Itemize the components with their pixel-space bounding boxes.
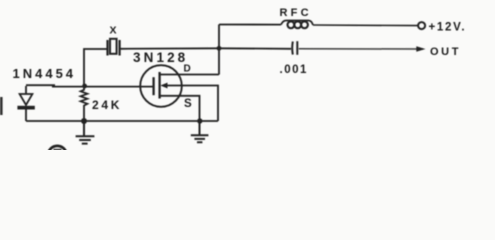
crystal X (106, 40, 108, 56)
wire top rail left of RFC (219, 24, 281, 26)
svg-text:.001: .001 (280, 64, 308, 76)
junction node resistor bottom (81, 118, 87, 124)
mosfet Q1 3N128 (140, 65, 182, 107)
svg-text:S: S (184, 98, 192, 110)
wire crystal to drain node (120, 47, 220, 50)
scan edge mark (0, 97, 3, 115)
junction node drain output (217, 46, 222, 51)
wire crystal left branch (84, 49, 108, 86)
wire RFC to +12V terminal (313, 24, 418, 27)
wire output line (219, 47, 291, 50)
junction node source ground (197, 118, 202, 123)
ground left (76, 121, 95, 144)
svg-text:+12V.: +12V. (429, 22, 467, 34)
svg-text:1N4454: 1N4454 (13, 66, 77, 81)
terminal +12V (418, 22, 425, 29)
svg-text:X: X (110, 25, 117, 37)
wire ground bus (26, 120, 218, 122)
wire drain node to top rail (218, 25, 220, 75)
svg-text:RFC: RFC (280, 7, 312, 19)
wire source lead (160, 96, 200, 121)
wire gate bus (26, 85, 154, 86)
svg-text:24K: 24K (92, 98, 122, 112)
figure label circle (48, 146, 67, 165)
diode D1 1N4454 (20, 86, 33, 121)
wire drain lead (160, 74, 219, 76)
svg-text:D: D (184, 64, 191, 75)
ground right (191, 121, 209, 142)
wire substrate lead (167, 86, 218, 122)
resistor R1 24K (81, 86, 88, 121)
svg-text:OUT: OUT (430, 46, 461, 58)
arrow OUT (416, 46, 425, 51)
capacitor C1 .001 (291, 42, 294, 55)
svg-text:3N128: 3N128 (133, 50, 188, 65)
junction node at crystal/gate/resistor (82, 84, 87, 89)
inductor RFC (281, 20, 313, 25)
